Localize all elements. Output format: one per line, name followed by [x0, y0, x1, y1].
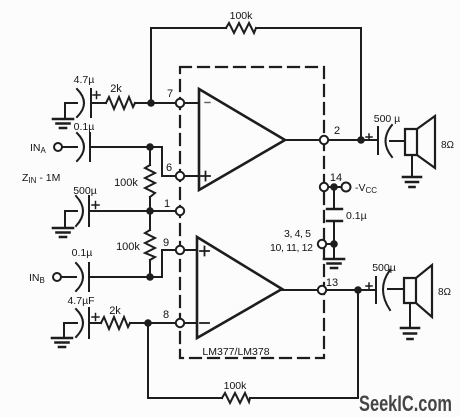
ground speaker B [401, 328, 419, 339]
wire node A down to resistor [149, 147, 151, 165]
wire pin8 to op-amp U1B inverting input [184, 322, 197, 324]
pins 3,4,5,10,11,12 [318, 240, 326, 248]
wire op-amp U1B output to pin 13 [282, 289, 318, 291]
resistor 100k top feedback [226, 23, 256, 33]
svg-text:ZIN - 1M: ZIN - 1M [22, 172, 60, 185]
pin 6 [176, 172, 184, 180]
op-amp U1B plus sign [200, 247, 209, 256]
wire INB terminal to cap [61, 276, 76, 278]
plus sign cap 4.7uF [92, 314, 99, 321]
resistor 100k vertical lower [145, 230, 155, 260]
capacitor C 4.7uF [76, 308, 89, 338]
svg-text:4.7µ: 4.7µ [74, 74, 95, 86]
pin 13 [318, 286, 326, 294]
plus sign cap output B [366, 283, 372, 289]
svg-text:100k: 100k [230, 10, 254, 22]
op-amp U1A minus sign [205, 102, 210, 104]
wire pins-node circle to junction [326, 243, 334, 245]
wire cap to pins node [333, 221, 335, 244]
junction pin7 node [147, 99, 155, 107]
svg-text:500 µ: 500 µ [374, 113, 401, 125]
wire 2k to pin8 [130, 322, 176, 324]
wire bottom feedback right up to pin13 node [250, 290, 358, 398]
capacitor C 4.7u (curved + straight plate) [77, 89, 91, 117]
wire speaker B to ground [409, 303, 411, 327]
svg-text:2k: 2k [109, 305, 121, 317]
wire resistor to node B [149, 260, 151, 277]
svg-text:13: 13 [326, 277, 338, 289]
svg-text:2k: 2k [110, 83, 122, 95]
svg-text:14: 14 [330, 172, 342, 184]
svg-text:0.1µ: 0.1µ [72, 247, 93, 259]
svg-text:10, 11, 12: 10, 11, 12 [270, 242, 313, 254]
terminal INA [54, 143, 62, 151]
ground speaker A [403, 177, 421, 187]
wire top feedback right down to output node [256, 28, 361, 140]
junction node 1 [146, 207, 154, 215]
svg-text:7: 7 [167, 88, 173, 100]
svg-text:0.1µ: 0.1µ [74, 121, 95, 133]
svg-text:6: 6 [166, 162, 172, 174]
wire pin14 to Vcc terminal [328, 186, 342, 188]
capacitor C 0.1u input A [77, 133, 90, 161]
svg-text:8Ω: 8Ω [438, 287, 452, 298]
ground bypass [324, 259, 344, 268]
wire speaker A to ground [411, 155, 413, 176]
svg-text:3, 4, 5: 3, 4, 5 [284, 228, 311, 240]
svg-text:500µ: 500µ [372, 262, 396, 274]
junction pin8 node [144, 319, 152, 327]
svg-text:-VCC: -VCC [355, 182, 377, 195]
plus sign cap output A [366, 134, 372, 140]
wire node A to pin 6 [150, 147, 176, 176]
terminal Vcc [342, 183, 351, 192]
junction bypass node [330, 240, 338, 248]
svg-text:0.1µ: 0.1µ [346, 210, 367, 222]
junction node B [146, 273, 154, 281]
wire pin13 to output node [326, 289, 358, 291]
wire cap to node 1 [89, 210, 150, 212]
wire pin6 to op-amp U1A non-inverting input [184, 175, 199, 177]
speaker A [405, 116, 435, 168]
wire cap to speaker A [390, 140, 405, 142]
capacitor C 500u output B [376, 270, 390, 310]
ground below 4.7uF cap [52, 338, 72, 347]
svg-text:500µ: 500µ [73, 185, 97, 197]
svg-text:100k: 100k [116, 241, 140, 253]
wire node 1 to pin 1 [150, 210, 176, 212]
wire ground L of 4.7uF cap [64, 323, 77, 337]
wire cap to 2k [91, 102, 106, 104]
wire INA terminal to cap [62, 146, 77, 148]
op-amp U1A plus sign [201, 172, 210, 181]
svg-text:1: 1 [164, 198, 170, 210]
plus sign cap 500u bias [92, 202, 99, 209]
capacitor C 500u output A [378, 125, 392, 157]
wire junction to ground [333, 244, 335, 258]
op-amp U1B minus sign [200, 322, 209, 324]
svg-text:100k: 100k [224, 380, 248, 392]
svg-text:8: 8 [163, 309, 169, 321]
junction output B node [354, 286, 362, 294]
wire cap to node B [89, 276, 150, 278]
pin 2 [320, 136, 328, 144]
wire node B to pin 9 [150, 250, 176, 277]
wire ground L of 4.7u cap [65, 103, 77, 118]
svg-text:INA: INA [30, 142, 47, 155]
pin 8 [176, 319, 184, 327]
ground below 4.7u cap [53, 119, 73, 128]
wire pin2 to output node [328, 139, 361, 141]
pin 9 [176, 246, 184, 254]
junction node A [146, 143, 154, 151]
speaker B [404, 265, 432, 317]
pin 1 [176, 207, 184, 215]
wire cap to speaker B [388, 288, 404, 290]
svg-text:9: 9 [163, 237, 169, 249]
capacitor C 0.1u bypass [327, 209, 342, 221]
wire cap to 2k [89, 322, 101, 324]
svg-text:INB: INB [29, 272, 45, 285]
wire top feedback left (pin7 node up and right) [151, 28, 226, 103]
plus sign cap 4.7u [93, 92, 100, 99]
resistor 100k bottom feedback [222, 393, 250, 403]
wire node 1 down to resistor [149, 211, 151, 230]
svg-text:8Ω: 8Ω [441, 140, 455, 151]
junction Vcc node [330, 183, 338, 191]
svg-text:4.7µF: 4.7µF [67, 295, 94, 307]
op-amp U1A [199, 89, 285, 190]
pin 7 [176, 99, 184, 107]
op-amp U1B [197, 237, 282, 338]
wire op-amp U1A output to pin 2 [285, 139, 320, 141]
wire pin7 to op-amp U1A inverting input [184, 102, 199, 104]
junction output A node [357, 136, 365, 144]
capacitor C 500u bias [76, 196, 89, 226]
svg-text:LM377/LM378: LM377/LM378 [202, 346, 269, 358]
dashed box LM377/LM378 package outline [180, 67, 324, 358]
pin 14 [320, 183, 328, 191]
wire cap to node A [90, 146, 150, 148]
wire output node to cap [361, 139, 377, 141]
wire ground L of 500u cap [65, 211, 77, 227]
terminal INB [53, 273, 61, 281]
svg-text:2: 2 [334, 125, 340, 137]
resistor 2k upper [106, 97, 135, 109]
capacitor C 0.1u input B [76, 263, 89, 291]
resistor 2k lower [101, 317, 130, 329]
svg-text:SeekIC.com: SeekIC.com [359, 391, 452, 416]
wire pin9 to op-amp U1B non-inverting input [184, 249, 197, 251]
wire bottom feedback left down [148, 323, 222, 398]
ground below 500u cap [53, 228, 73, 237]
wire 2k to pin7 [135, 102, 176, 104]
resistor 100k vertical upper [145, 165, 155, 197]
svg-text:100k: 100k [114, 177, 138, 189]
wire Vcc node down to cap [333, 187, 335, 209]
wire resistor to node 1 [149, 197, 151, 211]
wire output node to cap [358, 289, 375, 291]
